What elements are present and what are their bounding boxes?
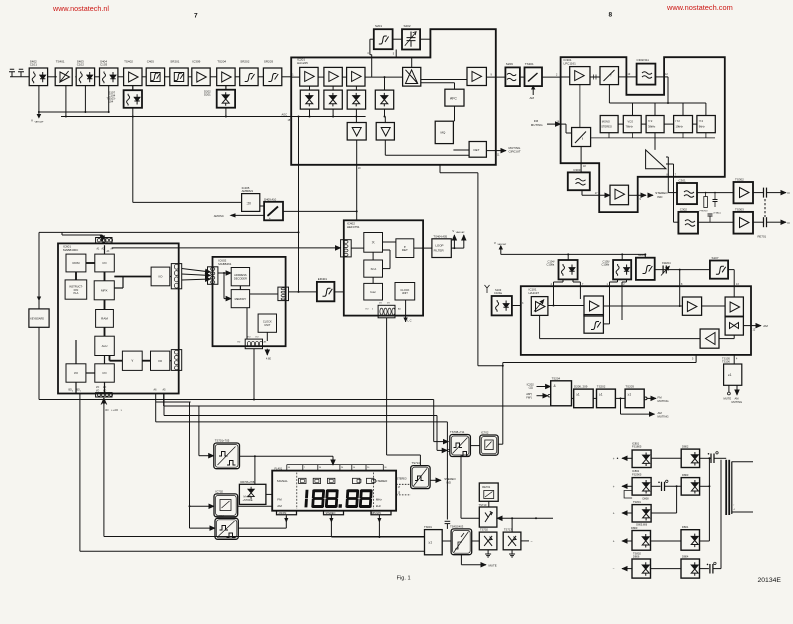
svg-text:I/O: I/O bbox=[158, 359, 163, 363]
svg-text:S209: S209 bbox=[506, 62, 513, 66]
svg-text:VARCAP: VARCAP bbox=[35, 121, 44, 124]
svg-text:≥1: ≥1 bbox=[628, 393, 632, 397]
svg-text:−: − bbox=[613, 567, 615, 571]
svg-text:MPX: MPX bbox=[101, 289, 108, 293]
svg-text:D808: D808 bbox=[643, 498, 650, 501]
svg-text:DET: DET bbox=[474, 148, 480, 152]
svg-text:FL401: FL401 bbox=[275, 466, 283, 470]
svg-text:D802: D802 bbox=[682, 445, 689, 449]
svg-text:TS801: TS801 bbox=[633, 500, 641, 504]
svg-text:www.nostatech.com: www.nostatech.com bbox=[666, 3, 733, 12]
svg-text:HA1197: HA1197 bbox=[529, 291, 540, 295]
svg-text:fosc: fosc bbox=[370, 290, 376, 294]
svg-text:D803: D803 bbox=[682, 473, 689, 477]
svg-text:TS402: TS402 bbox=[124, 60, 133, 64]
svg-text:FM: FM bbox=[277, 498, 282, 502]
svg-text:≥1: ≥1 bbox=[599, 393, 603, 397]
svg-text:HEF4751: HEF4751 bbox=[347, 225, 360, 229]
svg-text:I/O: I/O bbox=[103, 390, 106, 393]
svg-text:I/O: I/O bbox=[256, 337, 259, 339]
svg-text:MUTING: MUTING bbox=[732, 400, 743, 404]
svg-text:S202: S202 bbox=[404, 24, 411, 28]
svg-text:MAB8461: MAB8461 bbox=[218, 262, 232, 266]
svg-text:9kHz: 9kHz bbox=[699, 125, 706, 129]
svg-text:CLOCK: CLOCK bbox=[400, 288, 409, 292]
svg-text:IND: IND bbox=[657, 195, 663, 199]
svg-text:I/O: I/O bbox=[103, 261, 108, 265]
svg-text:VARCAP: VARCAP bbox=[456, 231, 465, 234]
svg-text:MHz: MHz bbox=[376, 498, 382, 502]
svg-text:IC702: IC702 bbox=[481, 431, 489, 435]
svg-text:kHz: kHz bbox=[376, 504, 382, 508]
svg-text:S107: S107 bbox=[712, 256, 719, 260]
svg-text:AM: AM bbox=[763, 324, 768, 328]
svg-text:D801: D801 bbox=[682, 525, 689, 529]
svg-text:C301: C301 bbox=[679, 179, 687, 183]
svg-text:STEREO: STEREO bbox=[397, 477, 407, 480]
svg-text:TS402/403: TS402/403 bbox=[450, 524, 464, 528]
svg-text:AGC: AGC bbox=[282, 113, 288, 117]
svg-text:(TSAC): (TSAC) bbox=[714, 212, 722, 215]
svg-text:AMOSC: AMOSC bbox=[214, 214, 224, 218]
svg-text:1: 1 bbox=[80, 391, 81, 393]
svg-text:f: f bbox=[611, 74, 612, 78]
svg-text:TS404,405: TS404,405 bbox=[433, 234, 447, 238]
svg-text:TS601: TS601 bbox=[424, 525, 432, 529]
svg-text:SR202: SR202 bbox=[240, 60, 250, 64]
svg-text:Fig. 1: Fig. 1 bbox=[397, 576, 411, 582]
svg-text:DECODER: DECODER bbox=[234, 277, 247, 281]
svg-text:0: 0 bbox=[372, 309, 373, 311]
svg-text:76kHz: 76kHz bbox=[626, 125, 634, 129]
svg-text:FS1805: FS1805 bbox=[632, 445, 642, 449]
svg-text:UNIT: UNIT bbox=[264, 323, 270, 327]
svg-text::N/:A: :N/:A bbox=[370, 267, 376, 271]
svg-text:TS301: TS301 bbox=[525, 62, 534, 66]
svg-text:+: + bbox=[269, 216, 271, 220]
svg-text:I/O: I/O bbox=[96, 390, 99, 393]
svg-text:CLOCK: CLOCK bbox=[263, 320, 272, 324]
svg-text:C102: C102 bbox=[77, 63, 85, 67]
svg-text:IC702: IC702 bbox=[216, 490, 224, 494]
svg-text:LPC1161: LPC1161 bbox=[564, 62, 577, 66]
svg-text:AMM821: AMM821 bbox=[242, 189, 254, 193]
svg-text:AM/FM: AM/FM bbox=[279, 512, 287, 515]
svg-text:FILTER: FILTER bbox=[434, 249, 445, 253]
svg-text:+I/O: +I/O bbox=[113, 408, 118, 412]
svg-text:SR203: SR203 bbox=[264, 60, 274, 64]
svg-text:TS702: TS702 bbox=[480, 528, 488, 532]
svg-text:FS2905: FS2905 bbox=[632, 472, 642, 476]
svg-text:S201: S201 bbox=[375, 24, 382, 28]
svg-text:0: 0 bbox=[72, 391, 73, 393]
svg-text:TS401: TS401 bbox=[56, 60, 65, 64]
svg-text:TS717: TS717 bbox=[504, 528, 512, 532]
svg-text:+: + bbox=[613, 457, 615, 461]
svg-text:I/O: I/O bbox=[74, 371, 79, 375]
svg-text:INSTRUCT-: INSTRUCT- bbox=[69, 284, 83, 288]
svg-text:7: 7 bbox=[194, 13, 198, 20]
svg-text:ADDRESS: ADDRESS bbox=[234, 273, 247, 277]
svg-text:STEREO: STEREO bbox=[326, 512, 336, 515]
svg-text:SIGNAL: SIGNAL bbox=[277, 479, 288, 483]
svg-text:f f:2: f f:2 bbox=[699, 119, 704, 123]
svg-text:19kHz: 19kHz bbox=[676, 125, 684, 129]
svg-text:D806: D806 bbox=[633, 555, 640, 559]
svg-text:AFC: AFC bbox=[450, 97, 457, 101]
svg-text:IC202: IC202 bbox=[527, 382, 535, 386]
svg-text:TS106: TS106 bbox=[722, 359, 730, 363]
svg-text:~: ~ bbox=[531, 540, 533, 544]
svg-text:104: 104 bbox=[109, 100, 114, 104]
svg-text:VARCAP: VARCAP bbox=[497, 243, 506, 246]
svg-text:C302/311: C302/311 bbox=[637, 58, 650, 62]
svg-text:KW204: KW204 bbox=[662, 261, 671, 265]
svg-text:D201: D201 bbox=[204, 93, 211, 97]
svg-text:8: 8 bbox=[609, 12, 613, 19]
svg-text:HA1225: HA1225 bbox=[297, 61, 308, 65]
svg-text:DET: DET bbox=[402, 248, 408, 252]
svg-text:≥1: ≥1 bbox=[429, 541, 433, 545]
svg-text:D409,410: D409,410 bbox=[264, 197, 277, 201]
svg-text:www.nostatech.nl: www.nostatech.nl bbox=[52, 4, 109, 13]
svg-text:C103: C103 bbox=[100, 63, 108, 67]
svg-text:D803: D803 bbox=[631, 526, 638, 530]
svg-text:D206, 209: D206, 209 bbox=[574, 385, 588, 389]
svg-text:≥1: ≥1 bbox=[728, 373, 732, 377]
svg-text:TS701+705: TS701+705 bbox=[215, 439, 230, 443]
svg-text:f f:2: f f:2 bbox=[648, 119, 653, 123]
svg-text:FM*): FM*) bbox=[526, 395, 532, 399]
svg-text:IC703: IC703 bbox=[216, 514, 224, 518]
svg-text:TS203: TS203 bbox=[625, 385, 634, 389]
svg-text:PHONO: PHONO bbox=[700, 211, 708, 213]
svg-text:AM*): AM*) bbox=[526, 392, 532, 396]
svg-text:I/O: I/O bbox=[158, 275, 163, 279]
svg-text:+: + bbox=[613, 485, 615, 489]
svg-text:TS204: TS204 bbox=[217, 60, 226, 64]
svg-text:I/O: I/O bbox=[103, 371, 108, 375]
svg-text:ION: ION bbox=[74, 288, 79, 292]
svg-text:C101: C101 bbox=[30, 63, 38, 67]
svg-text:I/O: I/O bbox=[105, 408, 108, 412]
svg-text:RAM: RAM bbox=[101, 317, 108, 321]
svg-text:MUTE: MUTE bbox=[489, 563, 497, 567]
svg-text:C405: C405 bbox=[147, 60, 155, 64]
svg-text:MUTING: MUTING bbox=[658, 399, 669, 403]
svg-text:4.6E: 4.6E bbox=[266, 358, 271, 361]
svg-text:MUTING: MUTING bbox=[658, 415, 669, 419]
svg-text:C108a: C108a bbox=[547, 263, 555, 267]
svg-text:38kHz: 38kHz bbox=[648, 125, 656, 129]
svg-text:S106: S106 bbox=[638, 253, 645, 257]
svg-text:MEMORY: MEMORY bbox=[235, 297, 247, 301]
svg-text:V: V bbox=[452, 229, 454, 233]
svg-text:MQ: MQ bbox=[441, 131, 446, 135]
svg-text:C302: C302 bbox=[680, 207, 688, 211]
svg-text:D805,806: D805,806 bbox=[636, 524, 647, 527]
svg-text:D804: D804 bbox=[682, 555, 689, 559]
svg-text:RE701: RE701 bbox=[482, 485, 490, 489]
svg-text:f f:2: f f:2 bbox=[676, 119, 681, 123]
svg-text:AM: AM bbox=[530, 96, 535, 100]
svg-text:I/O: I/O bbox=[248, 337, 251, 339]
svg-text:MAB8400C: MAB8400C bbox=[63, 248, 79, 252]
svg-text:f: f bbox=[582, 137, 583, 141]
svg-text:ER401: ER401 bbox=[318, 277, 328, 281]
svg-text:20134E: 20134E bbox=[758, 577, 782, 584]
svg-text:LOOP: LOOP bbox=[435, 244, 443, 248]
svg-text:L C: L C bbox=[408, 319, 412, 323]
svg-text:C109a: C109a bbox=[494, 291, 502, 295]
svg-text:≥1: ≥1 bbox=[576, 393, 580, 397]
svg-text:ALU: ALU bbox=[102, 344, 108, 348]
svg-text:TS708+711: TS708+711 bbox=[450, 430, 465, 434]
svg-text:I/O: I/O bbox=[387, 303, 390, 305]
svg-text:V: V bbox=[31, 119, 33, 123]
svg-text:SR201: SR201 bbox=[170, 60, 180, 64]
svg-text:V: V bbox=[494, 241, 496, 245]
svg-text:TS303: TS303 bbox=[735, 207, 744, 211]
svg-text:PLA: PLA bbox=[73, 291, 78, 295]
svg-text:TS302: TS302 bbox=[735, 178, 744, 182]
svg-text:STEREO: STEREO bbox=[375, 479, 388, 483]
svg-text:STEREO: STEREO bbox=[601, 125, 612, 129]
svg-text:TS202: TS202 bbox=[597, 385, 606, 389]
svg-text:+: + bbox=[613, 540, 615, 544]
svg-text:MHz/kHz: MHz/kHz bbox=[372, 512, 382, 515]
svg-text:C303: C303 bbox=[573, 168, 581, 172]
svg-text:IC309: IC309 bbox=[192, 60, 200, 64]
svg-text:MUTE: MUTE bbox=[724, 396, 732, 400]
svg-text:TS204: TS204 bbox=[552, 376, 561, 380]
svg-text:+: + bbox=[613, 512, 615, 516]
svg-text:CIRCUIT: CIRCUIT bbox=[509, 150, 521, 154]
svg-text:MONO: MONO bbox=[602, 120, 610, 124]
svg-text:TS710: TS710 bbox=[479, 503, 487, 507]
svg-text:VCO: VCO bbox=[628, 120, 634, 124]
svg-text:UNIT: UNIT bbox=[402, 291, 408, 295]
svg-text:RE701: RE701 bbox=[758, 235, 767, 239]
svg-text:MUTING: MUTING bbox=[531, 123, 543, 127]
svg-text:I/O: I/O bbox=[366, 309, 369, 311]
svg-text::20: :20 bbox=[247, 202, 252, 206]
svg-text:AM: AM bbox=[277, 504, 282, 508]
svg-text:I/O: I/O bbox=[379, 303, 382, 305]
svg-text:+STORE: +STORE bbox=[243, 499, 253, 502]
svg-text:C108b: C108b bbox=[602, 263, 610, 267]
svg-text:DR706+708: DR706+708 bbox=[240, 480, 254, 484]
svg-text:KEYBOARD: KEYBOARD bbox=[30, 318, 44, 321]
svg-text:(11): (11) bbox=[529, 386, 534, 390]
svg-text:TS714: TS714 bbox=[412, 461, 421, 465]
svg-text:ROM: ROM bbox=[72, 261, 80, 265]
